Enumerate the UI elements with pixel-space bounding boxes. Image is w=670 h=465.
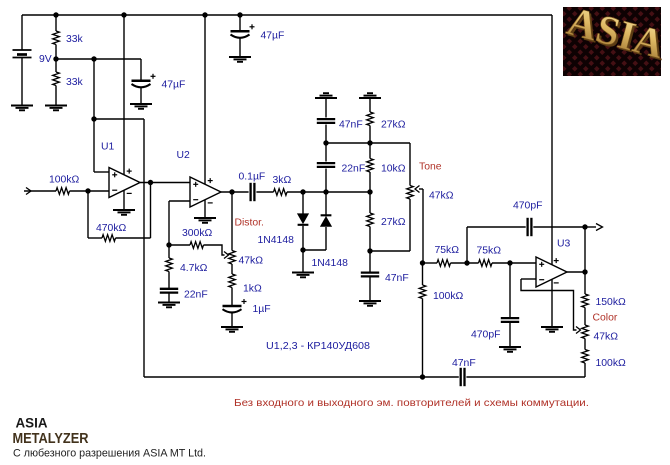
wire diode D2 bottom lead — [325, 227, 327, 250]
wire 150k to color pot — [584, 308, 586, 326]
potentiometer P3 47k color — [582, 325, 589, 339]
wire right-side V+ drop to U3 — [551, 15, 553, 265]
wire 47nF to bus — [325, 125, 327, 144]
node 9V divider — [53, 56, 58, 61]
node bias branch — [91, 116, 96, 121]
resistor R2 33k — [53, 72, 60, 86]
node D1 top — [300, 189, 305, 194]
wire output stub — [585, 226, 596, 228]
wire bottom bias rail left — [144, 376, 459, 378]
svg-text:U1: U1 — [101, 142, 115, 153]
ground divider — [45, 106, 67, 111]
svg-text:Color: Color — [593, 313, 618, 324]
resistor R6 4.7k — [166, 258, 173, 272]
ground 470pF — [499, 347, 521, 352]
wire tone bottom join — [370, 250, 410, 252]
node wiper-75k — [420, 260, 425, 265]
node U1 output — [148, 180, 153, 185]
resistor R5 300k — [190, 242, 204, 249]
wire tone wiper — [419, 188, 423, 190]
wire tone pot bottom — [409, 199, 411, 251]
wire 10k top lead — [369, 143, 371, 159]
svg-text:22nF: 22nF — [184, 290, 208, 301]
wire output to 150k — [584, 272, 586, 294]
svg-text:1N4148: 1N4148 — [258, 235, 295, 246]
node diode bottom — [300, 247, 305, 252]
resistor R16 100k bottom — [582, 350, 589, 364]
wire 470pF top right lead — [533, 226, 585, 228]
wire U1 output to U2 +input — [140, 182, 191, 184]
wire feedback node down — [87, 191, 89, 238]
wire battery top lead — [21, 15, 23, 50]
node 470pF out — [582, 224, 587, 229]
node rail-C1 — [237, 12, 242, 17]
wire U1 V+ supply — [123, 15, 125, 176]
wire bias to U1 +input vertical — [93, 59, 95, 172]
svg-text:47nF: 47nF — [385, 273, 409, 284]
resistor R13 75k b — [479, 260, 493, 267]
wire bias branch horizontal — [94, 118, 144, 120]
node tone bottom — [367, 248, 372, 253]
svg-text:47nF: 47nF — [452, 358, 476, 369]
svg-text:33k: 33k — [66, 34, 84, 45]
node U1 -input — [85, 188, 90, 193]
ground battery — [11, 106, 33, 111]
wire 75k chain b — [451, 262, 479, 264]
wire feedback to 470k — [88, 237, 102, 239]
svg-text:1kΩ: 1kΩ — [243, 284, 262, 295]
ground U1 supply — [113, 210, 135, 215]
svg-text:33k: 33k — [66, 77, 84, 88]
wire signal to 27k mid — [369, 192, 371, 213]
wire 47uF C1 top lead — [239, 15, 241, 31]
svg-text:27kΩ: 27kΩ — [381, 120, 406, 131]
ground 22nF — [158, 303, 180, 308]
svg-text:75kΩ: 75kΩ — [477, 246, 502, 257]
ground C2 — [130, 104, 152, 109]
resistor R8 3k — [274, 189, 288, 196]
resistor R15 150k — [582, 294, 589, 308]
capacitor C1 47uF electrolytic top — [231, 24, 255, 38]
wire U2 -input down — [168, 201, 170, 245]
node U3 output — [582, 269, 587, 274]
wire diode D1 bottom lead — [302, 226, 304, 250]
wire 27k mid to node — [369, 227, 371, 252]
ASIA logo — [562, 0, 670, 76]
wire 100k mid to bias rail — [422, 299, 424, 378]
wire 300k to wiper — [204, 245, 225, 255]
wire 47nF to ground — [369, 277, 371, 301]
node signal-tone — [367, 189, 372, 194]
potentiometer P1 47k distortion — [229, 251, 236, 265]
wire 75k chain c — [492, 262, 537, 264]
wire pot to 1k — [231, 264, 233, 274]
capacitor C3 0.1uF coupling — [251, 183, 255, 201]
svg-text:10kΩ: 10kΩ — [381, 164, 406, 175]
wire U3 -input stub — [521, 278, 537, 280]
resistor R4 470k feedback — [102, 235, 116, 242]
ground tone top right inverted — [359, 93, 381, 98]
svg-text:47kΩ: 47kΩ — [239, 256, 264, 267]
input arrow — [26, 188, 31, 195]
wire diode D1 top lead — [302, 192, 304, 214]
wire output drop vertical — [150, 183, 152, 239]
svg-text:150kΩ: 150kΩ — [596, 297, 627, 308]
svg-text:75kΩ: 75kΩ — [435, 245, 460, 256]
wire 470pF top left lead — [467, 226, 526, 228]
wire U2 V- to ground — [204, 199, 206, 219]
svg-text:0.1µF: 0.1µF — [239, 172, 266, 183]
svg-text:1µF: 1µF — [253, 304, 271, 315]
wire 1k to 1uF — [231, 288, 233, 306]
wire diode node to ground — [302, 250, 304, 273]
ground 1uF — [221, 327, 243, 332]
diode D1 1N4148 — [298, 214, 309, 225]
wire diode D2 top lead — [325, 192, 327, 216]
pot P3 wiper arrow — [576, 327, 581, 334]
wire 470pF bottom top lead — [509, 263, 511, 317]
wire 27k to bus — [369, 126, 371, 144]
capacitor C4 22nF U2 — [160, 289, 178, 293]
wire 9V node horizontal — [56, 58, 141, 60]
resistor R9 27k top — [367, 112, 374, 126]
op-amp U2 — [190, 177, 221, 207]
battery B1 9V — [13, 50, 32, 58]
svg-text:METALYZER: METALYZER — [13, 430, 89, 447]
ground tone top left inverted — [315, 93, 337, 98]
svg-text:Tone: Tone — [419, 162, 442, 173]
op-amp U3 — [536, 257, 567, 287]
node 75k mid — [464, 260, 469, 265]
wire input to 100k — [24, 190, 56, 192]
wire bus down to tone pot — [409, 143, 411, 186]
node tone bus right — [367, 140, 372, 145]
svg-text:100kΩ: 100kΩ — [49, 175, 80, 186]
wire node to 47nF — [369, 251, 371, 272]
capacitor C5 1uF electrolytic — [223, 299, 247, 313]
wire U3 -input loop — [521, 279, 577, 330]
svg-text:470pF: 470pF — [471, 330, 500, 341]
ground U3 supply — [541, 327, 563, 332]
ground U2 supply — [194, 218, 216, 223]
svg-text:U1,2,3 - КР140УД608: U1,2,3 - КР140УД608 — [266, 341, 370, 352]
svg-text:4.7kΩ: 4.7kΩ — [180, 263, 208, 274]
wire 470pF node to output node — [584, 227, 586, 272]
svg-text:300kΩ: 300kΩ — [182, 228, 213, 239]
pot P1 wiper arrow — [224, 252, 229, 259]
wire 33k R1 top lead — [55, 15, 57, 31]
node U3 +input — [507, 260, 512, 265]
wire 47uF C1 to ground — [239, 38, 241, 57]
wire 33k R1 to 9V node — [55, 45, 57, 73]
node D2 top — [323, 189, 328, 194]
svg-text:47kΩ: 47kΩ — [429, 191, 454, 202]
wire bottom bias rail right — [466, 376, 585, 378]
node rail-R1 — [53, 12, 58, 17]
wire color pot to 100k — [584, 339, 586, 350]
wire 470pF bottom to ground — [509, 323, 511, 347]
resistor R3 100k input — [56, 188, 70, 195]
ground tone 47nF — [359, 301, 381, 306]
capacitor C9 470pF feedback — [528, 218, 532, 236]
wire 4.7k to 22nF — [168, 272, 170, 289]
node U2 output — [229, 189, 234, 194]
resistor R11 27k mid — [367, 213, 374, 227]
capacitor C7 22nF tone — [317, 163, 335, 167]
svg-text:U3: U3 — [557, 239, 571, 250]
node tone bus left — [323, 140, 328, 145]
svg-text:U2: U2 — [177, 150, 191, 161]
svg-text:47kΩ: 47kΩ — [594, 332, 619, 343]
node bias rail tap — [420, 374, 425, 379]
wire 3k to diode node — [287, 191, 370, 193]
node rail-U2supply — [202, 12, 207, 17]
svg-text:47µF: 47µF — [261, 31, 285, 42]
svg-text:47µF: 47µF — [162, 80, 186, 91]
wire 33k R2 bottom lead — [55, 86, 57, 106]
svg-text:С любезного разрешения ASIA MT: С любезного разрешения ASIA MT Ltd. — [13, 448, 206, 460]
wire 47uF C2 to ground — [140, 88, 142, 105]
svg-text:Distor.: Distor. — [235, 218, 264, 229]
ground C1 — [229, 57, 251, 62]
wire U2 V+ supply — [204, 15, 206, 186]
svg-text:3kΩ: 3kΩ — [273, 175, 292, 186]
op-amp U1 — [109, 168, 140, 198]
wire node to 300k — [169, 244, 190, 246]
wire 22nF to ground — [168, 294, 170, 303]
node bias tap — [91, 56, 96, 61]
output arrow — [596, 224, 603, 231]
wire tone gnd stub left col — [325, 98, 327, 118]
wire top supply rail — [22, 14, 552, 16]
svg-text:470kΩ: 470kΩ — [96, 223, 127, 234]
wire tone gnd stub right col — [369, 98, 371, 112]
wire 100k to bias rail — [584, 363, 586, 377]
wire 22nF to signal — [325, 169, 327, 193]
wire 470k to output drop — [116, 237, 151, 239]
wire U2 -input stub — [169, 200, 191, 202]
svg-text:ASIA: ASIA — [16, 416, 48, 431]
wire bus to 22nF — [325, 143, 327, 162]
wire 1uF to ground — [231, 313, 233, 328]
capacitor C11 47nF output — [461, 368, 465, 386]
wire U2 out down to pot — [231, 192, 233, 251]
svg-text:470pF: 470pF — [513, 201, 542, 212]
wire 0.1uF to 3k — [256, 191, 273, 193]
potentiometer P2 47k tone — [407, 186, 414, 200]
svg-text:1N4148: 1N4148 — [312, 258, 349, 269]
wire 470pF top branch up — [466, 227, 468, 263]
wire U1 +input stub — [94, 171, 110, 173]
svg-text:27kΩ: 27kΩ — [381, 217, 406, 228]
capacitor C10 470pF to ground — [501, 318, 519, 322]
pot P2 wiper arrow — [415, 186, 420, 193]
svg-text:100kΩ: 100kΩ — [433, 291, 464, 302]
node rail-U1supply — [121, 12, 126, 17]
svg-text:Без входного и выходного эм. п: Без входного и выходного эм. повторителе… — [234, 398, 589, 409]
resistor R7 1k — [229, 274, 236, 288]
wire 100k mid top lead — [422, 263, 424, 285]
resistor R10 10k — [367, 159, 374, 173]
capacitor C2 47uF electrolytic left — [132, 74, 156, 88]
resistor R12 75k a — [437, 260, 451, 267]
svg-text:22nF: 22nF — [342, 164, 366, 175]
wire U3 V- to ground — [551, 279, 553, 328]
wire 10k to signal — [369, 172, 371, 192]
wire bias long vertical — [143, 119, 145, 377]
wire battery bottom lead — [21, 58, 23, 106]
svg-text:100kΩ: 100kΩ — [596, 358, 627, 369]
wire 100k to node — [70, 190, 89, 192]
wire U1 V- to ground — [123, 189, 125, 210]
capacitor C6 47nF tone top — [317, 119, 335, 123]
wire diode bottoms join — [303, 249, 326, 251]
capacitor C8 47nF tone bottom — [361, 273, 379, 277]
wire tone wiper down — [422, 189, 424, 263]
node U2 -input net — [166, 242, 171, 247]
wire 75k chain a — [423, 262, 437, 264]
wire U1 -input stub — [88, 190, 110, 192]
resistor R1 33k — [53, 31, 60, 45]
wire 4.7k top lead — [168, 245, 170, 258]
wire U2 output — [221, 191, 249, 193]
wire U3 output — [567, 271, 585, 273]
wire 47uF C2 top lead — [140, 59, 142, 80]
ground diodes — [292, 273, 314, 278]
svg-text:9V: 9V — [39, 54, 52, 65]
wire tone bus horizontal — [326, 142, 410, 144]
diode D2 1N4148 — [321, 215, 332, 226]
resistor R14 100k mid — [419, 285, 426, 299]
svg-text:47nF: 47nF — [339, 120, 363, 131]
